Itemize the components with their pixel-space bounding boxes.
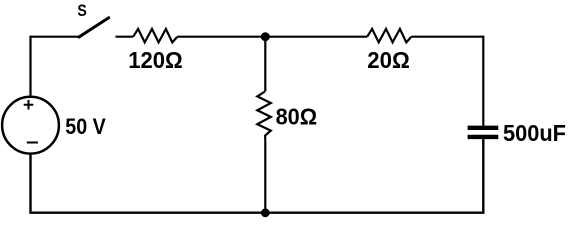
resistor R3 80ohm — [257, 92, 317, 141]
svg-text:120Ω: 120Ω — [128, 47, 183, 73]
node A (top junction dot) — [261, 32, 270, 41]
wire: bottom node to bottom-left corner up to source bottom — [31, 154, 266, 213]
wire: source top to top-left corner to switch pivot — [31, 37, 80, 97]
svg-text:80Ω: 80Ω — [276, 103, 318, 129]
wire: node A to 20 ohm resistor — [265, 36, 367, 38]
node B (bottom junction dot) — [261, 208, 270, 217]
voltage source V1 50V — [2, 97, 106, 154]
wire: capacitor bottom plate to bottom-right corner to bottom node — [265, 139, 483, 213]
wire: switch to 120 ohm resistor — [116, 36, 134, 38]
svg-text:S: S — [77, 1, 86, 20]
switch S — [77, 1, 108, 37]
resistor R1 120ohm — [128, 29, 183, 73]
capacitor C1 500uF — [468, 120, 566, 146]
wire: 80 ohm down to bottom node — [264, 140, 266, 213]
resistor R2 20ohm — [367, 29, 411, 73]
wire: 120 ohm to node A — [177, 36, 265, 38]
svg-text:50 V: 50 V — [65, 114, 106, 139]
svg-text:500uF: 500uF — [503, 120, 566, 146]
wire: node A down to 80 ohm resistor — [264, 37, 266, 92]
wire: 20 ohm to top-right corner down to capacitor top plate — [411, 37, 483, 126]
svg-text:20Ω: 20Ω — [367, 47, 410, 73]
